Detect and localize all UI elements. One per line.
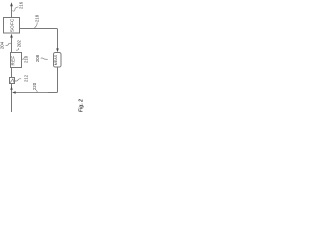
svg-text:210: 210 — [23, 55, 28, 63]
wire exhaust outlet (top) — [11, 5, 13, 18]
arrowhead down into rounded box — [56, 48, 59, 52]
leader to label 208 — [41, 58, 48, 60]
svg-text:208: 208 — [35, 54, 40, 62]
wire recycle down from rounded box and left to junction — [48, 67, 58, 93]
svg-text:MEAS: MEAS — [54, 54, 58, 65]
arrowhead up into SOFC — [10, 34, 13, 38]
arrowhead exhaust up — [10, 2, 13, 6]
svg-text:REF: REF — [11, 56, 16, 66]
pump box — [10, 78, 15, 84]
svg-text:SOFC: SOFC — [9, 18, 14, 32]
rounded box MEAS — [54, 53, 62, 68]
svg-text:212: 212 — [23, 74, 28, 82]
pump symbol — [10, 79, 13, 83]
wire junction to pump — [11, 84, 13, 93]
leader to label 202 — [16, 48, 18, 50]
wire recycle horizontal (faded section) — [15, 92, 48, 94]
reformer box — [11, 53, 22, 68]
wire fuel feed into SOFC bottom — [11, 37, 13, 53]
svg-text:204: 204 — [0, 41, 4, 49]
leader to label 218 — [35, 23, 38, 28]
leader to label 212 — [15, 79, 21, 81]
wire cathode outlet to right with corner down — [20, 29, 58, 50]
svg-text:218: 218 — [34, 14, 39, 22]
wire fuel inlet from bottom — [11, 93, 13, 113]
arrowhead up into pump — [10, 86, 12, 90]
leader to label 210 — [22, 58, 24, 59]
leader to label 216 — [13, 7, 19, 11]
leader to label 204 — [6, 43, 11, 45]
svg-text:216: 216 — [18, 1, 23, 9]
SOFC box — [4, 18, 20, 34]
svg-text:202: 202 — [16, 40, 21, 48]
svg-text:220: 220 — [32, 82, 37, 90]
svg-text:Fig. 2: Fig. 2 — [79, 99, 85, 112]
wire middle box to pump — [11, 68, 13, 78]
arrowhead left into fuel junction — [12, 91, 16, 94]
leader to label 220 — [35, 90, 38, 92]
